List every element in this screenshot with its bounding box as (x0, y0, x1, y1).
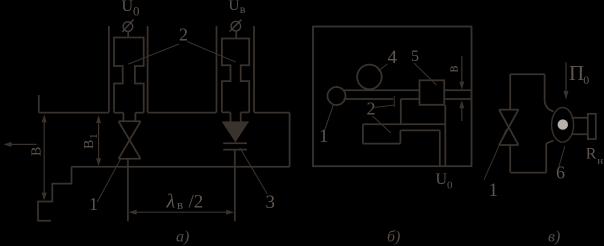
wire V2 (362, 124, 364, 143)
loop left wire lower (509, 145, 511, 173)
piezo plate lines under right wedge (223, 142, 247, 144)
notch stem to wedge, right (230, 112, 232, 122)
svg-text:/2: /2 (189, 192, 204, 213)
arrowhead v lower (points up) (459, 100, 464, 108)
right end wall of strip (289, 113, 291, 167)
waveguide bar bottom line (344, 98, 394, 100)
filled wedge (right transducer) (223, 122, 247, 141)
svg-text:0: 0 (583, 73, 589, 87)
material surface line (39, 112, 109, 114)
notch stem to wedge, left (122, 113, 124, 122)
svg-text:λ: λ (166, 191, 176, 213)
waveguide bar top line (344, 89, 420, 91)
svg-text:0: 0 (133, 4, 140, 19)
svg-text:U: U (229, 0, 240, 14)
movement direction arrow (points left) (9, 143, 37, 145)
wire V3 (399, 130, 401, 143)
transducer housing outer walls, left (108, 26, 110, 112)
generator circle 4 (357, 65, 382, 90)
arrowhead B1 top (96, 115, 101, 123)
floor line (bottom of strip) (72, 166, 290, 168)
arrowhead v upper (points down) (459, 82, 464, 90)
loop right wire upper (544, 74, 546, 101)
bright ball inside pickup (558, 119, 568, 129)
label U0 (source voltage, left transducer) (122, 0, 140, 19)
stepped strip profile (staircase) (38, 167, 72, 221)
wire H1 (363, 123, 445, 125)
svg-text:0: 0 (447, 180, 453, 192)
svg-text:3: 3 (266, 192, 276, 213)
arrowhead lambda right (226, 210, 234, 215)
bowtie transducer in figure v (499, 110, 519, 145)
serpentine delay line (400, 99, 402, 124)
svg-text:б): б) (387, 229, 400, 246)
svg-text:4: 4 (388, 47, 398, 68)
generator symbol (crossed circle) right (230, 20, 242, 32)
wire axis below right wedge (234, 150, 236, 222)
svg-text:1: 1 (319, 126, 329, 147)
svg-text:В: В (82, 140, 97, 149)
piezo holder inner box, left transducer (114, 38, 144, 113)
bowtie wedge (left transducer) (119, 121, 141, 159)
svg-text:в: в (240, 2, 246, 16)
wire stem from generator to left transducer (127, 31, 129, 37)
indicator needle (325, 105, 334, 130)
housing box (313, 27, 472, 167)
svg-text:2: 2 (367, 99, 376, 119)
svg-text:R: R (586, 146, 597, 163)
svg-text:а): а) (176, 229, 189, 246)
piezo holder inner box, right transducer (222, 39, 249, 113)
svg-text:1: 1 (489, 180, 499, 201)
dimension lambda_v/2 between wedge axes (131, 211, 232, 213)
wire V5 (to output) (444, 105, 446, 166)
loop left wire upper (509, 74, 511, 109)
arrowhead B bottom (42, 193, 47, 201)
indicator circle 1 (328, 87, 346, 105)
label lambda_v/2 (166, 191, 204, 213)
label P0 (569, 61, 589, 87)
svg-text:U: U (436, 171, 448, 188)
loop bottom wire (511, 172, 547, 174)
svg-text:1: 1 (88, 134, 100, 140)
svg-text:в): в) (548, 229, 560, 246)
dimension B1 (vertical) (98, 118, 100, 164)
svg-text:U: U (122, 0, 134, 15)
inner box bottom shelf, right (222, 111, 231, 113)
inner box bottom shelf, left (114, 112, 123, 114)
svg-text:в: в (177, 197, 183, 212)
label B1 (rotated) (82, 134, 100, 150)
wire stem from generator to right transducer (235, 31, 237, 39)
arrowhead B1 bottom (96, 158, 101, 166)
wires to load resistor (572, 117, 588, 119)
svg-text:2: 2 (179, 25, 188, 45)
wire H2 (363, 143, 401, 145)
label Rn (586, 146, 604, 168)
wire H3 (400, 129, 439, 131)
loop right wire lower (545, 144, 547, 173)
dimension B (vertical, left) (43, 118, 45, 199)
arrowhead B top (42, 114, 47, 122)
svg-text:6: 6 (556, 163, 565, 183)
thickness dimension v (right side) (461, 56, 463, 121)
wire V4 (to output) (439, 130, 441, 166)
loop top wire (510, 73, 544, 75)
wire to pickup top (545, 101, 554, 112)
svg-text:1: 1 (89, 194, 98, 214)
wire to pickup bottom (546, 141, 553, 144)
label U0 output (436, 171, 454, 192)
label Uv (right transducer voltage) (229, 0, 246, 16)
wire axis below left wedge (127, 159, 129, 222)
svg-text:н: н (597, 155, 603, 167)
transducer housing outer walls, right (216, 26, 218, 112)
pickup ellipse 6 (552, 108, 574, 143)
svg-text:в: в (446, 65, 462, 72)
svg-text:В: В (30, 147, 45, 156)
transducer square 5 (420, 80, 445, 105)
force arrow P0 (565, 62, 567, 94)
arrowhead lambda left (129, 210, 137, 215)
left end wall of strip (38, 95, 40, 113)
svg-text:П: П (569, 61, 584, 85)
generator symbol (crossed circle) left (122, 19, 134, 32)
load resistor Rn (588, 114, 596, 139)
svg-text:5: 5 (411, 48, 419, 65)
